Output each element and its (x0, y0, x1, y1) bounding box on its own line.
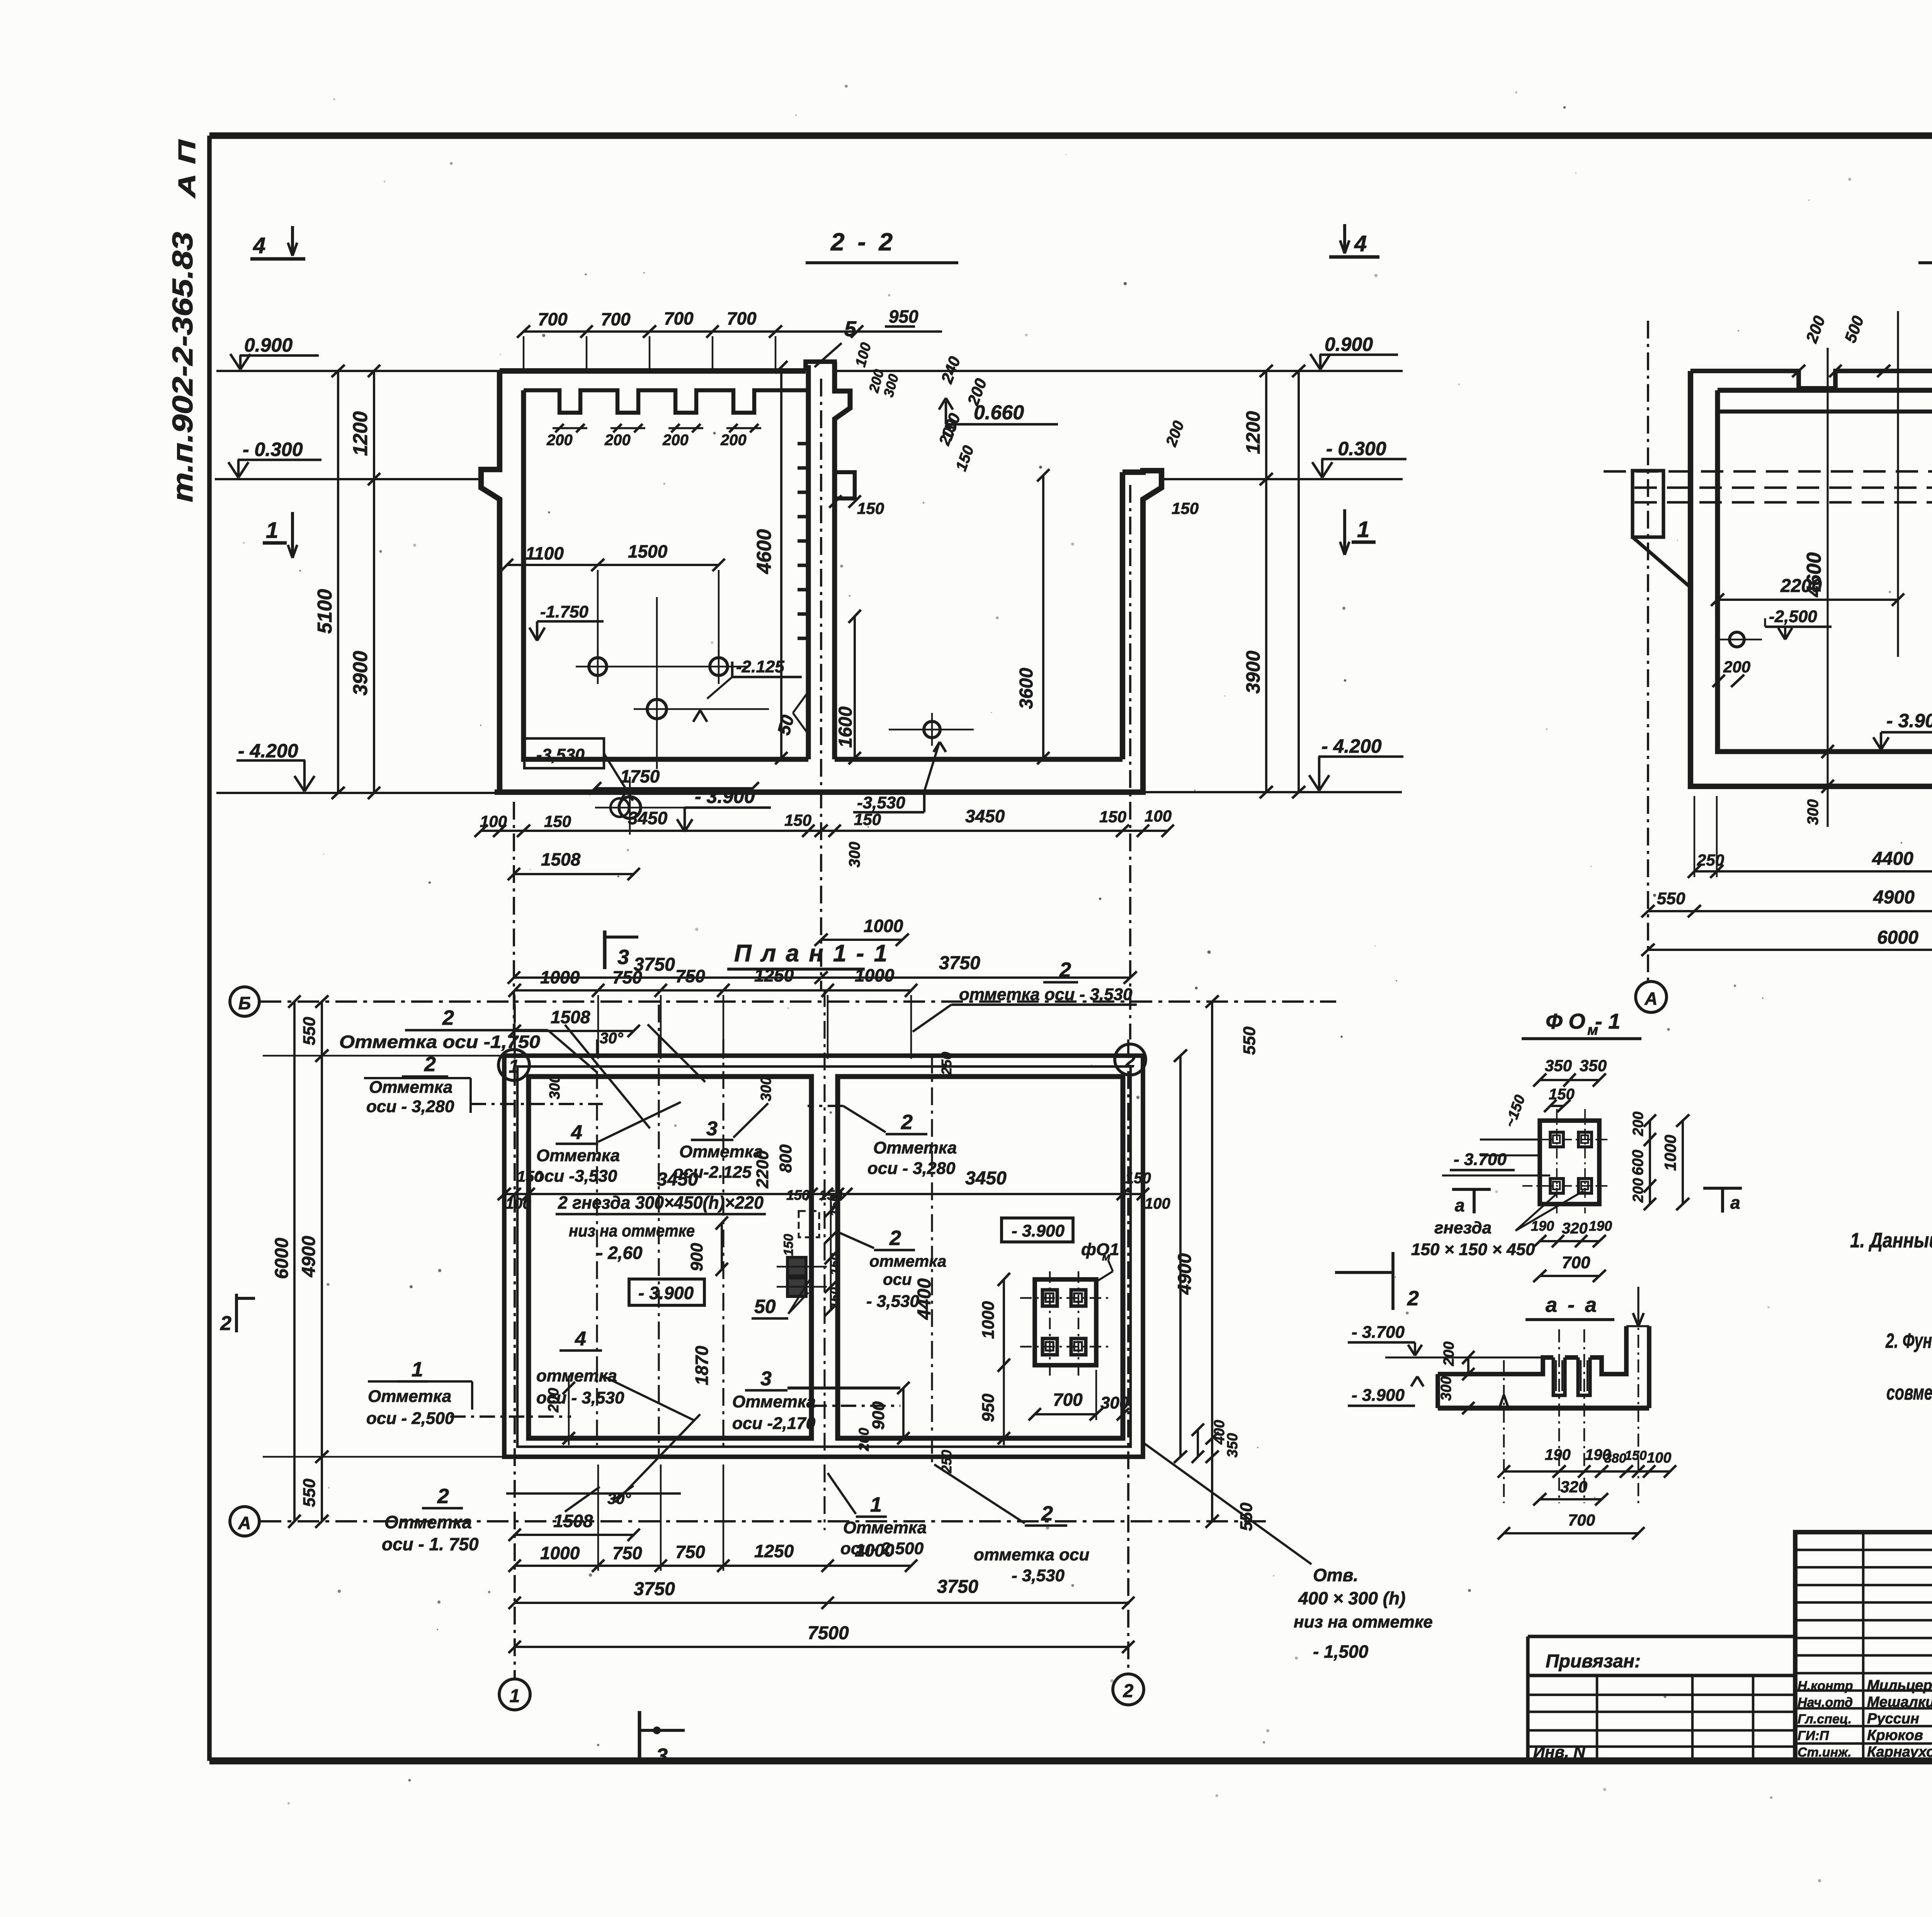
a-a right wall (1647, 1326, 1651, 1408)
svg-text:3900: 3900 (349, 651, 372, 696)
svg-text:100: 100 (1145, 1195, 1170, 1212)
svg-text:1250: 1250 (754, 1541, 794, 1561)
svg-text:100: 100 (480, 812, 507, 830)
plan top dim row 1000 750 750 1250 1000 (515, 989, 911, 992)
svg-text:А П: А П (174, 139, 201, 199)
plan vertical axis lines (596, 1039, 598, 1445)
svg-text:200: 200 (662, 432, 689, 449)
svg-text:Отметка: Отметка (368, 1387, 451, 1406)
svg-text:а - а: а - а (1546, 1293, 1599, 1317)
svg-text:190: 190 (1589, 1218, 1612, 1234)
FOm-1 section mark a right (1703, 1187, 1742, 1190)
axis line A vertical (1647, 321, 1649, 981)
svg-text:4900: 4900 (1873, 887, 1915, 908)
svg-text:550: 550 (1657, 889, 1685, 908)
svg-text:150: 150 (828, 1287, 842, 1309)
svg-text:3450: 3450 (965, 1168, 1007, 1189)
svg-text:П л а н 1 - 1: П л а н 1 - 1 (734, 940, 889, 967)
svg-text:- 0.300: - 0.300 (243, 439, 303, 460)
svg-text:ГИ:П: ГИ:П (1798, 1728, 1830, 1743)
svg-text:- 3.900: - 3.900 (638, 1283, 694, 1303)
svg-text:- 1: - 1 (1595, 1009, 1620, 1033)
svg-text:3: 3 (656, 1744, 668, 1767)
plan axis circle 2 (1113, 1674, 1144, 1705)
sheet border frame (209, 133, 1932, 139)
svg-text:1000: 1000 (540, 967, 580, 987)
pipe circles upper row (589, 658, 607, 675)
svg-text:0.900: 0.900 (1325, 333, 1373, 355)
svg-text:2200: 2200 (753, 1150, 772, 1189)
svg-text:Ф О: Ф О (1546, 1009, 1585, 1033)
svg-text:300: 300 (1438, 1376, 1454, 1401)
level -3.900 box right chamber (1002, 1218, 1073, 1242)
svg-text:190: 190 (1531, 1218, 1554, 1234)
svg-text:950: 950 (889, 306, 918, 327)
axis circle B plan (230, 987, 259, 1016)
dim 1600 rotated (854, 616, 856, 758)
gnezda node squares (787, 1257, 806, 1276)
svg-text:2: 2 (1059, 958, 1071, 981)
svg-text:3750: 3750 (939, 953, 980, 973)
svg-text:150: 150 (781, 1234, 796, 1256)
svg-text:- 3.900: - 3.900 (695, 786, 755, 807)
plan left dim chain 550 4900 550 (321, 1002, 323, 1521)
svg-text:100: 100 (1145, 807, 1172, 825)
svg-text:700: 700 (601, 309, 631, 329)
section marker 2 plan left (235, 1294, 238, 1332)
svg-text:Крюков: Крюков (1867, 1727, 1923, 1744)
svg-text:1: 1 (1357, 517, 1369, 542)
ground level line 0.900 (216, 370, 500, 372)
svg-text:700: 700 (664, 308, 694, 328)
dim 6000 (1648, 949, 1932, 951)
svg-text:Гл.спец.: Гл.спец. (1798, 1712, 1852, 1726)
dim 1750 (595, 787, 753, 789)
svg-text:- 3.900: - 3.900 (1012, 1221, 1065, 1240)
hidden channel dashed lines (1604, 470, 1932, 473)
svg-text:0.900: 0.900 (244, 334, 293, 356)
svg-text:700: 700 (538, 309, 568, 329)
plan mid dim line 3450 3450 (504, 1193, 1143, 1195)
svg-text:2: 2 (437, 1485, 449, 1508)
svg-text:2 - 2: 2 - 2 (830, 228, 896, 256)
svg-text:150: 150 (784, 811, 811, 829)
right chamber left wall top step (835, 472, 855, 498)
plan bottom dim row (515, 1565, 911, 1567)
svg-text:- 4.200: - 4.200 (1321, 735, 1382, 757)
svg-text:200: 200 (1630, 1112, 1646, 1136)
svg-text:150: 150 (517, 1168, 543, 1185)
a-a groove 1 (1553, 1357, 1565, 1395)
svg-text:Отметка: Отметка (369, 1078, 452, 1097)
svg-text:1508: 1508 (551, 1007, 590, 1027)
svg-text:отметка: отметка (869, 1252, 946, 1270)
level line -4.200 bottom (216, 792, 500, 794)
svg-text:низ на отметке: низ на отметке (569, 1221, 695, 1240)
svg-text:- 3.900: - 3.900 (1352, 1386, 1405, 1405)
svg-text:1: 1 (510, 1686, 520, 1706)
svg-text:150: 150 (1125, 1170, 1151, 1187)
svg-text:а: а (1455, 1195, 1465, 1215)
axis circle 1 section 2-2 (498, 1050, 529, 1080)
plan axis circle 1 (499, 1679, 530, 1710)
svg-text:4: 4 (253, 233, 265, 258)
svg-text:550: 550 (1240, 1026, 1259, 1055)
svg-text:Отметка: Отметка (873, 1138, 957, 1157)
svg-text:-3,530: -3,530 (857, 793, 905, 812)
svg-text:300: 300 (1804, 799, 1821, 825)
section marker 3 top (603, 930, 606, 969)
section 2-2 top dim line 700x4 950 (524, 330, 857, 333)
svg-text:Привязан:: Привязан: (1546, 1651, 1641, 1672)
svg-text:150: 150 (1172, 499, 1199, 517)
svg-text:250: 250 (1697, 851, 1724, 869)
svg-text:300: 300 (758, 1077, 774, 1101)
svg-text:Б: Б (238, 993, 251, 1013)
svg-text:400 × 300 (h): 400 × 300 (h) (1298, 1588, 1405, 1608)
svg-text:4: 4 (571, 1121, 582, 1144)
svg-text:150: 150 (828, 1194, 842, 1216)
svg-text:Отметка: Отметка (843, 1518, 927, 1537)
pipe circle bottom left double (619, 797, 641, 818)
plan right dim chain 4900 (1179, 1056, 1182, 1457)
svg-text:отметка оси: отметка оси (974, 1545, 1089, 1564)
section 2-2 bottom slab (495, 789, 1146, 795)
svg-text:оси - 1. 750: оси - 1. 750 (382, 1534, 479, 1554)
svg-text:5100: 5100 (314, 589, 336, 634)
dims 250 4400 250 (1694, 870, 1932, 873)
level line -0.300 (215, 478, 481, 480)
svg-text:900: 900 (687, 1243, 706, 1271)
svg-text:А: А (238, 1513, 251, 1533)
a-a level line dash (1385, 1356, 1541, 1358)
dim 3600 rotated (1042, 475, 1044, 758)
section 2-2 right wall outline (1122, 471, 1162, 792)
svg-text:2: 2 (424, 1053, 436, 1076)
svg-text:1600: 1600 (835, 706, 856, 748)
left dim chain 5100 (337, 371, 339, 793)
svg-text:300: 300 (846, 842, 863, 867)
svg-text:-3,530: -3,530 (536, 745, 585, 764)
plan right chamber inner rect (838, 1077, 1123, 1438)
a-a groove inner lines (1555, 1360, 1557, 1391)
svg-text:150: 150 (854, 810, 881, 828)
svg-text:190: 190 (1545, 1446, 1571, 1463)
svg-text:-2,500: -2,500 (1769, 607, 1817, 626)
svg-text:550: 550 (300, 1478, 319, 1507)
svg-text:- 3.900: - 3.900 (1886, 710, 1932, 731)
svg-text:250: 250 (939, 1052, 954, 1075)
svg-text:750: 750 (612, 967, 642, 987)
plan axis B horizontal (260, 1000, 1336, 1003)
FOm-1 section mark a left (1452, 1188, 1491, 1191)
svg-text:750: 750 (612, 1543, 642, 1563)
left dim chain 1200/3900 (373, 371, 375, 793)
svg-text:- 0.300: - 0.300 (1326, 438, 1386, 459)
top slab bump detail 5 (806, 362, 835, 371)
svg-text:150: 150 (544, 812, 571, 830)
a-a axis verticals (1503, 1360, 1505, 1503)
svg-text:3450: 3450 (965, 806, 1005, 826)
svg-text:1000: 1000 (1661, 1135, 1679, 1171)
right chamber floor (835, 757, 1122, 762)
a-a profile outline (1438, 1357, 1553, 1374)
svg-text:4400: 4400 (1872, 849, 1913, 869)
level -3.530 left box (524, 738, 604, 768)
svg-text:6000: 6000 (272, 1238, 292, 1279)
svg-text:Отв.: Отв. (1313, 1565, 1358, 1585)
svg-text:- 3,530: - 3,530 (866, 1292, 920, 1311)
axis circle A plan (230, 1507, 259, 1536)
center axis 3-3 (1897, 311, 1899, 657)
middle wall ladder rungs (798, 442, 808, 445)
svg-text:4900: 4900 (1175, 1253, 1195, 1295)
svg-text:1870: 1870 (692, 1345, 712, 1385)
svg-text:4900: 4900 (299, 1236, 319, 1277)
svg-text:1508: 1508 (553, 1511, 593, 1531)
svg-text:150 × 150 × 450: 150 × 150 × 450 (1411, 1240, 1535, 1259)
svg-text:3900: 3900 (1242, 651, 1264, 694)
svg-text:350: 350 (1580, 1056, 1607, 1075)
foundation FOm1 plan rect (1035, 1279, 1096, 1365)
svg-text:4600: 4600 (753, 529, 776, 574)
svg-text:700: 700 (1562, 1253, 1590, 1272)
axis leader dash left (471, 1103, 603, 1105)
svg-text:750: 750 (675, 966, 705, 986)
svg-text:Ст.инж.: Ст.инж. (1798, 1745, 1852, 1760)
a-a top arrow mark (1633, 1313, 1638, 1326)
svg-text:750: 750 (675, 1542, 705, 1562)
svg-text:350: 350 (1545, 1056, 1572, 1075)
svg-text:1508: 1508 (541, 849, 581, 869)
plan axis 2 vertical (1127, 1039, 1129, 1674)
svg-text:1000: 1000 (855, 1540, 895, 1560)
svg-text:гнезда: гнезда (1434, 1218, 1492, 1237)
right side dim chain 1200 3900 (1265, 371, 1267, 792)
plan axis 1 vertical (514, 1005, 516, 1679)
rotated dim 4600 middle wall (780, 367, 782, 758)
svg-text:- 3,530: - 3,530 (1012, 1566, 1065, 1585)
svg-text:Мильцер: Мильцер (1867, 1677, 1932, 1694)
svg-text:- 2,60: - 2,60 (597, 1243, 643, 1263)
plan outer foundation rect (504, 1056, 1143, 1457)
middle wall left face (806, 365, 811, 759)
svg-text:320: 320 (1562, 1220, 1588, 1237)
plan left chamber inner rect (529, 1077, 811, 1438)
a-a groove 2 (1578, 1357, 1590, 1395)
svg-text:3: 3 (760, 1368, 772, 1390)
svg-text:-2.125: -2.125 (736, 657, 784, 676)
dim 1000 rotated foundation (1003, 1279, 1005, 1365)
svg-text:2: 2 (1123, 1681, 1134, 1701)
svg-text:100: 100 (505, 1195, 531, 1212)
svg-text:5: 5 (844, 316, 857, 341)
svg-text:Отметка: Отметка (536, 1146, 620, 1165)
svg-text:200: 200 (546, 432, 573, 449)
svg-text:1000: 1000 (979, 1301, 998, 1339)
left chamfer diagonal (1633, 537, 1690, 587)
svg-text:3750: 3750 (937, 1577, 978, 1597)
svg-text:2: 2 (1407, 1287, 1419, 1310)
svg-text:Отметка: Отметка (384, 1512, 472, 1532)
svg-text:Руссин: Руссин (1867, 1711, 1919, 1727)
svg-text:Нач.отд: Нач.отд (1798, 1695, 1853, 1710)
FOm-1 right dims 200 600 200 1000 (1649, 1121, 1651, 1204)
svg-text:1. Данный лист читать с: 1. Данный лист читать с листом ЖС - 31 (1850, 1229, 1932, 1252)
svg-text:-1.750: -1.750 (540, 602, 588, 621)
section marker 3 bottom (638, 1711, 641, 1763)
axis circle A (1636, 981, 1667, 1012)
svg-text:150: 150 (828, 1253, 842, 1275)
dim 1100 1500 (507, 564, 719, 566)
svg-text:1200: 1200 (349, 411, 372, 456)
svg-text:2: 2 (442, 1006, 454, 1029)
FOm-1 centrelines (1556, 1109, 1558, 1213)
svg-text:2. Фундамент под оборудов: 2. Фундамент под оборудование бетонирова… (1885, 1329, 1932, 1352)
svg-text:3600: 3600 (1016, 668, 1037, 709)
svg-text:оси: оси (883, 1270, 912, 1288)
svg-text:550: 550 (300, 1017, 319, 1045)
axis circle 2 section 2-2 (1115, 1044, 1146, 1075)
otv note leader diagonal (1143, 1442, 1311, 1564)
svg-text:150: 150 (1625, 1448, 1647, 1463)
plan dim 7500 (515, 1646, 1128, 1648)
plan axis A horizontal (260, 1520, 1271, 1522)
svg-text:2: 2 (901, 1111, 913, 1134)
svg-text:350: 350 (1225, 1433, 1241, 1458)
svg-text:200: 200 (1630, 1178, 1646, 1203)
svg-text:950: 950 (979, 1393, 998, 1422)
FOm-1 plan rect (1540, 1121, 1599, 1204)
svg-text:300: 300 (547, 1075, 563, 1099)
middle wall right face with corbel (835, 362, 850, 759)
svg-text:3: 3 (706, 1118, 718, 1140)
section 3-3 outer box (1690, 371, 1932, 786)
svg-text:30°: 30° (600, 1030, 623, 1047)
svg-text:7500: 7500 (808, 1623, 849, 1643)
svg-text:3450: 3450 (628, 808, 668, 828)
svg-text:4: 4 (1354, 231, 1367, 256)
svg-text:Отметка: Отметка (732, 1392, 816, 1411)
svg-text:Н.контр: Н.контр (1798, 1679, 1853, 1693)
plan left dim chain 6000 (293, 1002, 296, 1521)
a-a bottom slab (1438, 1406, 1649, 1411)
svg-text:1500: 1500 (628, 541, 668, 561)
floor dim chain 100 150 3450 x2 (481, 830, 1168, 832)
svg-text:а: а (1730, 1192, 1740, 1213)
svg-text:600: 600 (1629, 1150, 1646, 1175)
svg-text:- 3.700: - 3.700 (1352, 1323, 1405, 1342)
svg-text:4600: 4600 (1803, 552, 1825, 597)
left wall sleeve (1633, 471, 1663, 537)
level -3.900 box left chamber (629, 1279, 704, 1305)
svg-text:1000: 1000 (855, 965, 895, 985)
svg-text:1: 1 (266, 518, 278, 543)
svg-text:3: 3 (617, 946, 629, 969)
svg-text:Карнаухова: Карнаухова (1867, 1744, 1932, 1760)
svg-text:3450: 3450 (657, 1169, 698, 1190)
svg-text:А: А (1644, 988, 1657, 1009)
svg-text:низ на отметке: низ на отметке (1294, 1613, 1433, 1631)
section 2-2 outer wall outline (481, 371, 500, 792)
svg-text:Отметка: Отметка (679, 1142, 763, 1161)
FOm-1 socket squares (1550, 1132, 1563, 1147)
svg-text:700: 700 (1053, 1390, 1083, 1410)
svg-text:200: 200 (1441, 1342, 1457, 1366)
section marker 2 left of a-a (1391, 1252, 1395, 1310)
privyazan table (1528, 1635, 1795, 1638)
svg-text:300: 300 (1100, 1393, 1129, 1412)
svg-text:2 гнезда 300×450(h)×220: 2 гнезда 300×450(h)×220 (558, 1192, 764, 1213)
svg-text:200: 200 (604, 432, 631, 449)
svg-text:1250: 1250 (754, 965, 794, 985)
svg-text:1000: 1000 (864, 916, 903, 936)
svg-text:оси -3,530: оси -3,530 (534, 1167, 617, 1186)
svg-text:2: 2 (1041, 1502, 1053, 1525)
svg-text:250: 250 (939, 1450, 954, 1473)
gnezda node dashed rect (799, 1211, 819, 1237)
foundation centrelines (1049, 1271, 1051, 1376)
top slab underside with joist teeth (524, 390, 808, 413)
svg-text:50: 50 (754, 1296, 776, 1317)
svg-text:1750: 1750 (620, 766, 660, 786)
section 2-2 top slab (500, 368, 806, 374)
svg-text:2: 2 (220, 1312, 231, 1335)
svg-text:Инв. N: Инв. N (1533, 1743, 1586, 1761)
dims 550 4900 550 (1648, 910, 1932, 912)
svg-text:0.660: 0.660 (974, 401, 1024, 424)
svg-text:Отметка оси -1,750: Отметка оси -1,750 (339, 1032, 540, 1052)
svg-text:200: 200 (1723, 658, 1750, 676)
svg-text:1: 1 (870, 1493, 882, 1516)
svg-text:- 4.200: - 4.200 (238, 740, 298, 762)
svg-text:100: 100 (1647, 1450, 1671, 1466)
plan dim 3750 3750 (515, 1602, 1128, 1604)
svg-text:- 3.700: - 3.700 (1454, 1150, 1507, 1169)
svg-text:оси -2,170: оси -2,170 (732, 1414, 816, 1433)
svg-text:150: 150 (1099, 808, 1126, 826)
svg-text:- 1,500: - 1,500 (1313, 1641, 1369, 1662)
title block signature grid (1795, 1532, 1932, 1761)
svg-text:2: 2 (889, 1226, 901, 1250)
svg-text:200: 200 (546, 1388, 562, 1413)
left chamber inner walls (524, 390, 808, 759)
dim 3750 3750 bottom (514, 976, 1130, 979)
plan wall outer face rect (517, 1067, 1131, 1447)
svg-text:320: 320 (1560, 1478, 1587, 1496)
pipe circle mid (647, 699, 667, 719)
svg-text:Мешалкин: Мешалкин (1867, 1694, 1932, 1710)
svg-text:1: 1 (412, 1358, 423, 1381)
foundation anchor squares (1043, 1290, 1057, 1306)
slab underside line (1718, 410, 1932, 413)
svg-text:380: 380 (1604, 1451, 1626, 1466)
svg-text:150: 150 (857, 499, 884, 517)
svg-text:150: 150 (786, 1187, 810, 1203)
svg-text:оси - 3,280: оси - 3,280 (366, 1097, 454, 1116)
svg-text:оси - 3,280: оси - 3,280 (867, 1159, 956, 1178)
svg-text:1000: 1000 (540, 1543, 580, 1563)
svg-text:200: 200 (856, 1428, 872, 1451)
section 3-3 top slab with notches (1690, 371, 1932, 388)
svg-text:700: 700 (1568, 1511, 1595, 1529)
svg-text:1200: 1200 (1242, 411, 1264, 454)
pipe circle bottom right (924, 721, 940, 738)
section 3-3 inner box (1718, 390, 1932, 752)
svg-text:6000: 6000 (1877, 927, 1918, 948)
svg-text:200: 200 (720, 432, 747, 449)
svg-text:оси - 2,500: оси - 2,500 (366, 1409, 454, 1428)
